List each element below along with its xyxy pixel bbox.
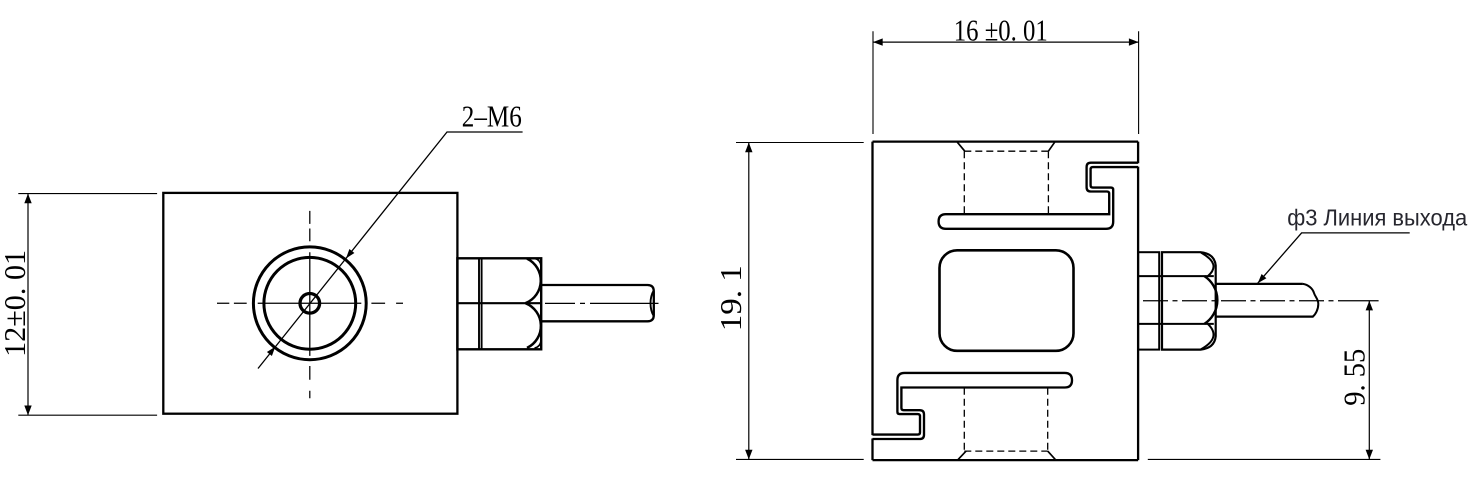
body outline right (gap at upper cut entry): [1137, 142, 1139, 461]
upper S-cut slot: [939, 163, 1139, 229]
nut (right view, across corners): [1162, 252, 1216, 349]
cable centerline (dash-dot): [1143, 300, 1350, 302]
bottom hole chamfer lines: [958, 451, 1056, 460]
cable (left view): [541, 285, 654, 321]
svg-text:ф3 Линия выхода: ф3 Линия выхода: [1287, 204, 1468, 230]
nut corner chamfer arcs: [535, 259, 542, 349]
dim arrows: [24, 194, 31, 204]
leader ф3 arrow: [1258, 274, 1267, 283]
nut bottom facet arc: [1201, 324, 1214, 349]
body outline top: [873, 140, 1139, 142]
dimension 19.1: [748, 143, 750, 460]
nut top facet arc: [526, 259, 541, 304]
svg-text:19. 1: 19. 1: [713, 265, 748, 331]
gland collar double line: [479, 258, 482, 349]
svg-text:2–M6: 2–M6: [462, 98, 522, 133]
body rectangle (front view): [163, 193, 457, 414]
cable centerline: [545, 302, 659, 304]
leader ф3 line: [1258, 233, 1410, 283]
dimension 12±0.01: [27, 194, 29, 416]
svg-text:16 ±0. 01: 16 ±0. 01: [954, 13, 1048, 48]
cable end concave arc: [651, 291, 654, 317]
body outline bottom: [873, 459, 1139, 461]
svg-text:9. 55: 9. 55: [1337, 349, 1372, 406]
svg-text:12±0. 01: 12±0. 01: [0, 250, 32, 357]
vertical centerline: [309, 211, 311, 398]
cable break curve: [1303, 284, 1318, 317]
lower S-cut slot (180° rotated copy): [873, 373, 1073, 439]
inner ring circle: [264, 257, 356, 349]
extension lines: [18, 194, 157, 416]
small center hole circle: [300, 294, 320, 314]
nut top facet arc: [1201, 253, 1214, 277]
bottom hidden hole dashed lines: [964, 388, 1047, 451]
top hidden hole dashed lines: [964, 151, 1048, 213]
leader arrow lower: [267, 347, 275, 356]
nut facet lines: [1138, 276, 1214, 324]
top hole chamfer lines: [957, 142, 1054, 151]
center rounded square hole: [940, 250, 1074, 350]
horizontal centerline: [217, 302, 403, 304]
gland collar (right view): [1138, 252, 1159, 349]
leader arrow upper: [346, 249, 354, 258]
nut bottom facet arc: [526, 303, 541, 348]
gland middle line: [457, 302, 541, 304]
dimension 16±0.01: [873, 41, 1139, 43]
leader line 2-M6: [258, 132, 523, 369]
nut middle facet arc: [1204, 276, 1217, 324]
body outline left (gap at lower cut entry): [871, 142, 873, 461]
dimension 9.55: [1368, 301, 1370, 460]
outer circle: [253, 247, 366, 360]
cable gland outer rectangle: [457, 258, 541, 349]
cable (right view): [1216, 284, 1314, 317]
